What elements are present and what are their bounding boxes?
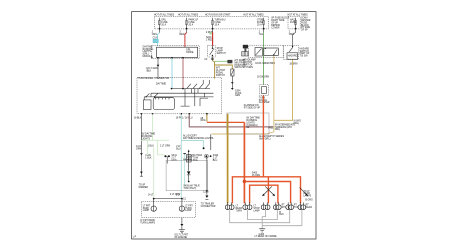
wire LT BLU DRL pin to TS assembly	[171, 58, 173, 88]
DRL resistor feed bar (LT GRN)	[215, 60, 228, 62]
I/P connector box text	[246, 117, 260, 130]
label right of ring junction	[213, 155, 219, 162]
ground wire front lamps	[181, 218, 183, 225]
svg-text:HOT AT ALL TIMES: HOT AT ALL TIMES	[288, 14, 309, 17]
svg-text:18 DK GRN: 18 DK GRN	[255, 63, 267, 65]
svg-text:14 LT: 14 LT	[148, 195, 154, 197]
svg-text:RT SIDE OF I/P: RT SIDE OF I/P	[244, 108, 261, 110]
cluster 5 label	[294, 205, 301, 209]
wire from F5 to hazard switch	[293, 32, 296, 46]
ground return rails (gray)	[230, 210, 262, 223]
svg-text:COVER: COVER	[271, 27, 280, 29]
label in grouping box	[183, 186, 200, 190]
wire LT GRN drop mid	[157, 140, 164, 155]
label 2 LT BLU	[188, 155, 194, 162]
wire below resistor w/ splice arrows	[231, 76, 233, 90]
front turn lamp label	[185, 205, 193, 212]
svg-text:T/S SW: T/S SW	[300, 56, 309, 58]
svg-text:18 DK GRN: 18 DK GRN	[257, 77, 269, 79]
fuse F5 HAZARD	[290, 18, 297, 30]
ground G117	[179, 230, 185, 233]
rear lamp cluster 6	[298, 205, 306, 210]
splice S341 dots	[164, 155, 166, 157]
wire DK YEL elbow from switch to resistor	[212, 61, 232, 69]
wire: fuse F3 stub + labels	[212, 30, 214, 33]
crossed-wire mark	[262, 186, 274, 196]
hazard switch contact	[292, 46, 293, 47]
connector label C100 left	[145, 155, 152, 159]
contact diagonals	[187, 84, 210, 89]
headlamp switch inner block	[255, 48, 262, 56]
headlamp switch contact plate	[264, 48, 279, 55]
svg-text:/BLK: /BLK	[146, 70, 151, 72]
connector grouping box C100 (thin)	[166, 160, 207, 190]
front park lamp label	[143, 205, 151, 212]
svg-text:LAMPS: LAMPS	[303, 195, 311, 198]
fuse F4 STOP HAZ	[257, 18, 265, 30]
label DRL harness note	[142, 133, 156, 141]
svg-text:DRL): DRL)	[275, 129, 281, 131]
wire BRN from headlamp switch down	[211, 56, 274, 134]
orange junction blob	[243, 180, 246, 183]
turn signal flasher (dashed)	[260, 85, 269, 96]
wire ORG trunk 2 from flasher	[262, 95, 264, 176]
wire RED from F2 to DRL module	[185, 33, 187, 48]
orange bus level 1	[232, 177, 300, 204]
headlamp switch (dashed)	[249, 45, 284, 57]
svg-text:B ORG: B ORG	[305, 200, 313, 202]
splice S341 label	[171, 155, 177, 162]
stop lamp switch contact	[210, 46, 214, 58]
headlamp switch label	[243, 59, 256, 69]
cam block A	[143, 100, 151, 110]
fuse F3 TURN B/U	[212, 18, 226, 30]
wire: fuse F2 stub + label	[186, 30, 188, 33]
svg-text:DIODE: DIODE	[186, 52, 194, 54]
wire ORG elbow from assembly	[206, 115, 208, 122]
text below connector boxes	[259, 135, 284, 140]
front lamp assembly label	[140, 219, 155, 224]
cam block B (rounded)	[153, 98, 174, 110]
orange bus level 1 mid drop	[267, 177, 269, 204]
splice S210 glyph (green)	[209, 32, 212, 34]
label right of diode	[193, 155, 203, 162]
rear lamp cluster 1	[225, 205, 234, 210]
DRL module body	[157, 47, 198, 57]
cluster 1 label	[236, 206, 243, 213]
svg-text:ORG: ORG	[289, 34, 294, 36]
cluster 4 label	[282, 205, 289, 209]
svg-text:YEL: YEL	[259, 34, 264, 36]
headlamp knob symbol	[242, 45, 249, 56]
fuse F2 PARK LP	[186, 18, 199, 30]
svg-text:S421: S421	[268, 128, 274, 130]
svg-text:DIMMER: DIMMER	[139, 187, 149, 189]
svg-text:RED: RED	[180, 34, 185, 36]
wire LT GRN distribution bar	[141, 139, 169, 141]
svg-text:SWITCH: SWITCH	[216, 75, 225, 77]
rear lamp cluster 4	[273, 205, 281, 210]
bulb front turn lamp	[181, 199, 183, 206]
wire DK YEL trunk (thick)	[227, 114, 229, 204]
harness text right	[275, 123, 296, 131]
svg-text:(W/O DRL): (W/O DRL)	[259, 138, 271, 140]
contact rail 1	[172, 88, 211, 90]
contact rail 3	[144, 96, 213, 98]
wire LT GRN to left front lamp	[153, 147, 155, 199]
label 18 LT GRN/BLK	[146, 68, 158, 72]
resistor DRL	[231, 69, 234, 76]
svg-text:GRN: GRN	[171, 160, 176, 162]
pin dots DRL module bottom	[157, 57, 159, 59]
svg-text:20 A: 20 A	[257, 24, 262, 27]
svg-text:TURN SIGNAL / HAZARD SW: TURN SIGNAL / HAZARD SW	[138, 77, 170, 80]
svg-text:HOT IN RUN OR START: HOT IN RUN OR START	[205, 14, 231, 17]
svg-text:18 BRN: 18 BRN	[289, 63, 297, 65]
stop lamp switch (dashed)	[208, 46, 216, 57]
ring junction	[205, 155, 207, 157]
wire to trailer connector arrow	[206, 157, 208, 195]
svg-text:OF ENGINE: OF ENGINE	[174, 237, 187, 239]
wire: fuse F4 stub + label	[263, 30, 265, 33]
label on DK YEL wire	[216, 68, 226, 77]
svg-text:ORG: ORG	[152, 34, 157, 36]
wire RED from F3 to stop lamp switch	[212, 32, 214, 45]
svg-text:20 A: 20 A	[189, 24, 194, 27]
svg-text:I/P HARN: I/P HARN	[243, 66, 253, 69]
bulb front park lamp	[153, 199, 155, 206]
rear lamp cluster 2	[243, 205, 252, 210]
svg-text:BLU: BLU	[213, 160, 218, 162]
svg-text:1 BLK: 1 BLK	[145, 158, 152, 160]
text block right of I/P fuse block	[271, 18, 289, 30]
junction at box corner	[206, 190, 208, 192]
svg-text:DAYTIME RUNNING LIGHTS: DAYTIME RUNNING LIGHTS	[183, 137, 214, 140]
wire: fuse F5 stub + label	[295, 30, 297, 33]
svg-text:GRN: GRN	[235, 95, 240, 97]
svg-text:OF I/P: OF I/P	[301, 30, 308, 32]
wire PPL/maroon from assembly down-right	[189, 115, 273, 127]
fuse F1 DRL	[159, 18, 168, 30]
svg-text:L P: L P	[133, 237, 137, 239]
wire label A8 ORG	[200, 117, 205, 122]
pin dots assembly bottom	[141, 113, 143, 115]
svg-text:REAR: REAR	[306, 206, 313, 209]
rear lamp cluster 3	[261, 205, 270, 210]
svg-text:CONNECTOR: CONNECTOR	[201, 206, 216, 208]
splice label S354	[235, 90, 242, 97]
wire DK YEL down into TS assembly	[214, 65, 216, 79]
diode component in grouping box	[188, 150, 190, 171]
contact rail 2	[151, 92, 214, 94]
left contact marks	[146, 93, 158, 96]
wire BLK from assembly to takeout arrow	[140, 115, 142, 176]
svg-text:BLK: BLK	[279, 214, 284, 216]
harness note right	[183, 135, 214, 140]
svg-text:C100: C100	[203, 191, 209, 193]
flasher label	[259, 97, 270, 104]
DRL microswitch block	[227, 60, 232, 63]
cluster 6 label	[306, 205, 313, 209]
DRL module label	[143, 45, 154, 58]
svg-text:2 LT: 2 LT	[176, 195, 181, 197]
turn signal / hazard switch assembly (large dashed box)	[137, 78, 222, 114]
svg-text:/ 18 BLU: / 18 BLU	[184, 117, 193, 119]
wire 18 LT GRN/BLK from DRL pin	[157, 58, 159, 78]
front lamp bus bar	[154, 198, 182, 200]
svg-text:HOT AT ALL TIMES: HOT AT ALL TIMES	[178, 14, 199, 17]
flasher mount label	[244, 104, 261, 109]
svg-text:TURN: TURN	[236, 210, 243, 212]
cluster 2 label	[253, 206, 260, 213]
frame border	[132, 12, 316, 239]
I/P fuse block (dashed)	[155, 17, 269, 29]
wire BRN hazard switch down and left	[274, 60, 293, 121]
front park/turn lamp assembly (dashed)	[141, 201, 195, 217]
svg-text:2 LT GRN: 2 LT GRN	[160, 146, 170, 148]
svg-text:15 A: 15 A	[215, 24, 220, 27]
lamp feed stubs	[228, 202, 304, 205]
svg-text:FLASHER: FLASHER	[259, 101, 270, 104]
svg-text:PKG: PKG	[193, 160, 198, 162]
svg-text:TOW ONLY): TOW ONLY)	[183, 188, 196, 190]
rear lamp cluster 5	[286, 205, 294, 210]
DRL module dashed outline	[152, 46, 200, 59]
svg-text:HOT AT ALL TIMES: HOT AT ALL TIMES	[244, 14, 265, 17]
wire LT GRN drop to S341	[147, 140, 149, 155]
splice note at BRN elbow	[268, 128, 274, 130]
svg-text:LAMP: LAMP	[253, 209, 260, 212]
trailer connector label	[201, 203, 216, 208]
wire LT BLU long drop to front lamp	[180, 115, 182, 199]
svg-text:DRL): DRL)	[294, 123, 300, 125]
hazard switch (dashed)	[283, 46, 298, 60]
I/P connector box (gray)	[227, 113, 269, 134]
ground G403	[259, 229, 265, 232]
svg-text:DAYTIME: DAYTIME	[156, 83, 167, 86]
svg-text:BLU: BLU	[176, 148, 181, 150]
svg-text:TURN LAMPS: TURN LAMPS	[140, 222, 155, 225]
splice label near orange junction	[252, 172, 261, 176]
svg-text:HOT AT ALL TIMES: HOT AT ALL TIMES	[154, 14, 175, 17]
wire: fuse F1 stub + label	[159, 30, 161, 33]
svg-text:LAMP: LAMP	[143, 209, 150, 212]
svg-text:LT REAR OF FRAME: LT REAR OF FRAME	[255, 235, 277, 238]
orange bus level 3	[250, 185, 278, 203]
stop lamp switch label	[217, 48, 226, 55]
svg-text:SWITCH: SWITCH	[217, 53, 226, 55]
wire BLK drop from bar	[166, 157, 168, 164]
orange bus level 2	[244, 182, 290, 204]
svg-text:ORG: ORG	[200, 120, 205, 122]
LT BLU branch to splice	[181, 141, 203, 148]
diode symbol	[187, 171, 191, 174]
svg-text:2 RED: 2 RED	[206, 40, 213, 42]
label 14 LT GRN left	[136, 146, 142, 150]
wire LT GRN pin drop	[152, 115, 154, 141]
svg-text:HAZARD: HAZARD	[288, 54, 298, 57]
diagonal takeout right	[300, 187, 308, 195]
splice dot S409	[203, 147, 205, 149]
text block right of hazard fuse block	[301, 18, 311, 32]
label below cluster 4	[279, 212, 284, 216]
hazard switch label	[300, 47, 310, 57]
svg-text:GRN: GRN	[136, 148, 141, 150]
svg-text:18 BLK: 18 BLK	[134, 117, 142, 119]
hazard fuse block (dashed)	[288, 17, 300, 29]
wire DK GRN from F4 down to turn flasher	[263, 33, 265, 85]
wire below stop lamp switch w/ connector ticks	[211, 57, 213, 61]
svg-text:LAMP: LAMP	[185, 209, 192, 212]
takeout label	[139, 185, 149, 189]
svg-text:FUSE: FUSE	[290, 22, 297, 24]
label at BRN bend	[294, 120, 301, 124]
wire ORG trunk 1 (thick)	[243, 122, 245, 203]
right contact drops	[181, 89, 195, 107]
connector C1 glyph (cyan) on DRL feed	[153, 39, 158, 42]
wire DK RED DRL pin to TS assembly	[182, 58, 184, 88]
svg-text:20 A: 20 A	[161, 24, 166, 27]
wire LT BLU from F1 to DRL module	[158, 33, 160, 46]
LT BLU connector arrows	[183, 153, 186, 155]
label right of microswitch	[234, 59, 245, 69]
takeout label right	[303, 191, 311, 198]
